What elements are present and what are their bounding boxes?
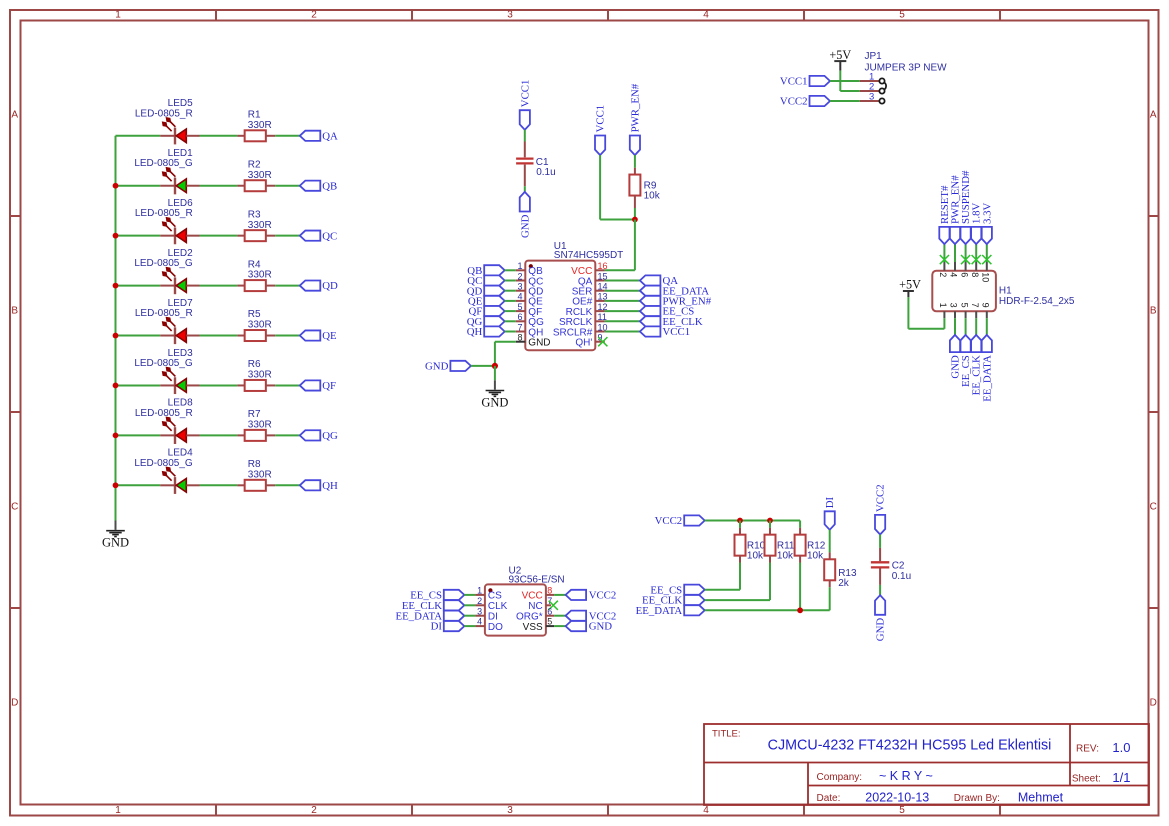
svg-text:VCC: VCC xyxy=(522,591,543,602)
svg-text:QF: QF xyxy=(322,380,336,392)
port EE_CLK (pullups) xyxy=(642,595,705,607)
svg-text:10k: 10k xyxy=(807,551,824,562)
svg-text:D: D xyxy=(1150,698,1157,709)
wire port QC to U1 pin 2 xyxy=(505,280,516,282)
svg-text:2: 2 xyxy=(311,10,317,21)
svg-text:LED-0805_G: LED-0805_G xyxy=(134,258,193,269)
svg-text:4: 4 xyxy=(517,292,522,302)
label JP1 xyxy=(865,51,948,74)
svg-text:QH: QH xyxy=(322,480,338,492)
resistor R6 330R xyxy=(237,380,275,391)
U2 pin 1 marker dot xyxy=(488,588,492,592)
port 1.8V (H1 top) xyxy=(971,203,983,245)
label LED5 xyxy=(135,98,193,119)
wire H1 pin 3 to port GND xyxy=(954,318,956,335)
label LED7 xyxy=(135,298,193,319)
LED LED8 LED-0805_R xyxy=(160,417,199,444)
ground GND (U1) xyxy=(481,380,508,409)
svg-text:DO: DO xyxy=(488,622,503,633)
svg-text:CLK: CLK xyxy=(488,601,508,612)
port EE_CS (U2 pin 1) xyxy=(410,590,464,602)
svg-text:GND: GND xyxy=(875,618,887,642)
svg-text:330R: 330R xyxy=(248,320,272,331)
wire QH row from bus to LED LED4 xyxy=(116,484,161,486)
label U2 xyxy=(509,566,565,586)
svg-text:1: 1 xyxy=(115,805,121,816)
resistor R9 10k xyxy=(629,168,640,208)
U1 pin 2 QC xyxy=(516,271,544,287)
wire U1 pin 8 to ground junction xyxy=(495,342,516,366)
wire R10 to EE_CS row xyxy=(739,563,741,590)
port EE_DATA (U1 right) xyxy=(640,285,709,297)
svg-text:330R: 330R xyxy=(248,120,272,131)
svg-text:VCC1: VCC1 xyxy=(663,326,691,338)
port QD (U1 pin 3) xyxy=(467,285,505,297)
wire port EE_DATA to U2 pin 3 xyxy=(464,615,475,617)
port EE_CLK (H1 bottom) xyxy=(971,335,983,395)
label R4 xyxy=(248,259,272,280)
svg-text:QB: QB xyxy=(322,180,337,192)
svg-text:A: A xyxy=(11,110,18,121)
U1 pin 9 QH' xyxy=(575,333,604,349)
svg-text:9: 9 xyxy=(981,303,991,308)
LED LED4 LED-0805_G xyxy=(160,467,199,494)
port EE_CLK (U1 right) xyxy=(640,316,703,328)
port SUSPEND# (H1 top) xyxy=(960,170,972,244)
port PWR_EN# xyxy=(629,83,641,155)
U1 pin 3 QD xyxy=(516,282,544,298)
svg-text:B: B xyxy=(11,306,18,317)
svg-text:GND: GND xyxy=(102,536,129,550)
LED LED3 LED-0805_G xyxy=(160,367,199,394)
wire LED LED2 to resistor R4 xyxy=(200,285,238,287)
U1 pin 5 QF xyxy=(516,302,542,318)
port GND (H1 bottom) xyxy=(950,335,962,379)
junction dot U1 ground xyxy=(492,363,498,369)
wire QD row from bus to LED LED2 xyxy=(116,285,161,287)
U2 pin 2 CLK xyxy=(475,596,507,612)
wire U2 pin 6 to port VCC2 xyxy=(554,615,566,617)
wire resistor R2 to port QB xyxy=(275,185,300,187)
svg-text:JUMPER 3P NEW: JUMPER 3P NEW xyxy=(865,63,948,74)
junction dot EE_DATA/R12 xyxy=(797,607,803,613)
wire resistor R4 to port QD xyxy=(275,285,300,287)
wire port QG to U1 pin 6 xyxy=(505,320,516,322)
svg-text:Sheet:: Sheet: xyxy=(1072,774,1101,785)
svg-text:B: B xyxy=(1150,306,1157,317)
svg-text:LED-0805_R: LED-0805_R xyxy=(135,308,193,319)
port QA (U1 right) xyxy=(640,275,678,287)
U2 pin 5 VSS xyxy=(523,617,554,633)
svg-text:330R: 330R xyxy=(248,419,272,430)
svg-text:93C56-E/SN: 93C56-E/SN xyxy=(509,575,565,586)
svg-text:EE_DATA: EE_DATA xyxy=(981,355,993,402)
port VCC1 (U1 right) xyxy=(640,326,690,338)
svg-text:VCC1: VCC1 xyxy=(519,80,531,108)
svg-text:6: 6 xyxy=(517,312,522,322)
svg-text:VCC2: VCC2 xyxy=(875,484,887,512)
svg-text:R7: R7 xyxy=(248,409,261,420)
port DI (U2 pin 4) xyxy=(431,621,465,633)
wire H1 pin 4 to port PWR_EN# xyxy=(954,244,956,262)
svg-text:7: 7 xyxy=(517,322,522,332)
U1 pin 15 QA xyxy=(578,271,608,287)
U1 pin 6 QG xyxy=(516,312,544,328)
svg-text:2k: 2k xyxy=(838,578,850,589)
svg-text:VCC1: VCC1 xyxy=(780,76,808,88)
svg-text:LED-0805_R: LED-0805_R xyxy=(135,108,193,119)
port GND (C2 bottom) xyxy=(875,595,887,641)
U1 pin 1 QB xyxy=(516,261,543,277)
port GND (U1) xyxy=(425,361,471,373)
resistor R2 330R xyxy=(237,180,275,191)
junction dot VCC1/R9 xyxy=(632,217,638,223)
svg-text:GND: GND xyxy=(589,621,613,633)
frame column numbers bottom xyxy=(115,805,905,816)
no-connect X H1 pin 8 xyxy=(972,255,981,264)
svg-text:JP1: JP1 xyxy=(865,51,883,62)
wire H1 pin 6 to port SUSPEND# xyxy=(965,244,967,262)
LED LED7 LED-0805_R xyxy=(160,317,199,344)
wire H1 pin 8 to port 1.8V xyxy=(975,244,977,262)
svg-text:LED-0805_G: LED-0805_G xyxy=(134,458,193,469)
U1 pin 13 OE# xyxy=(572,292,607,308)
LED LED1 LED-0805_G xyxy=(160,167,199,194)
H1 pin 6 xyxy=(959,262,969,277)
no-connect X U1 pin 9 xyxy=(598,337,607,346)
svg-text:H1: H1 xyxy=(999,286,1012,297)
wire H1 pin 9 to port EE_DATA xyxy=(986,318,988,335)
wire port EE_CLK to U2 pin 2 xyxy=(464,604,475,606)
U1 pin 14 SER xyxy=(572,282,608,298)
wire R9 to junction xyxy=(634,208,636,220)
svg-text:R3: R3 xyxy=(248,209,261,220)
svg-text:330R: 330R xyxy=(248,170,272,181)
resistor R8 330R xyxy=(237,480,275,491)
svg-text:~ K R Y ~: ~ K R Y ~ xyxy=(879,769,933,783)
svg-text:330R: 330R xyxy=(248,220,272,231)
label LED2 xyxy=(134,248,193,269)
svg-text:1: 1 xyxy=(477,586,482,596)
title block REV xyxy=(1076,740,1130,755)
svg-text:3: 3 xyxy=(477,606,482,616)
svg-text:3: 3 xyxy=(507,805,513,816)
port QD xyxy=(300,280,338,292)
svg-text:3: 3 xyxy=(869,92,874,103)
wire port QF to U1 pin 5 xyxy=(505,310,516,312)
wire +5V to JP1 pin 2 xyxy=(840,71,860,91)
svg-text:+5V: +5V xyxy=(899,278,921,292)
wire U1 pin 10 to port VCC1 xyxy=(605,331,640,333)
port VCC1 (U1 supply) xyxy=(595,105,607,155)
label R9 xyxy=(644,181,661,202)
label C2 xyxy=(892,561,911,582)
port RESET# (H1 top) xyxy=(939,185,951,244)
svg-text:2022-10-13: 2022-10-13 xyxy=(865,790,929,804)
svg-text:0.1u: 0.1u xyxy=(892,571,911,582)
H1 pin 1 xyxy=(938,303,948,319)
port QB (U1 pin 1) xyxy=(467,265,504,277)
svg-text:10k: 10k xyxy=(644,191,661,202)
wire U2 pin 8 to port VCC2 xyxy=(554,594,566,596)
wire EE_DATA to R13 xyxy=(705,609,830,611)
U2 pin 7 NC xyxy=(528,596,552,612)
U1 pin 4 QE xyxy=(516,292,543,308)
wire port QD to U1 pin 3 xyxy=(505,290,516,292)
wire port EE_CS to U2 pin 1 xyxy=(464,594,475,596)
port VCC2 (JP1) xyxy=(780,96,830,108)
wire port QH to U1 pin 7 xyxy=(505,331,516,333)
port VCC2 (C2 top) xyxy=(875,484,887,534)
wire R13 to EE_DATA row xyxy=(829,587,831,610)
svg-text:QH': QH' xyxy=(575,338,592,349)
U2 pin 4 DO xyxy=(475,617,503,633)
label H1 xyxy=(999,286,1075,308)
title text CJMCU-4232 xyxy=(768,738,1052,754)
label LED4 xyxy=(134,448,193,469)
H1 pin 5 xyxy=(959,303,969,319)
no-connect X H1 pin 6 xyxy=(961,255,970,264)
wire QA row from bus to LED LED5 xyxy=(116,135,161,137)
op-amp U2 body 93C56-E/SN xyxy=(485,584,546,635)
svg-text:Company:: Company: xyxy=(817,772,863,783)
svg-text:3.3V: 3.3V xyxy=(981,203,993,224)
svg-text:C: C xyxy=(11,502,18,513)
svg-text:4: 4 xyxy=(477,617,482,627)
wire junction to U1 pin 16 xyxy=(605,220,635,271)
svg-text:HDR-F-2.54_2x5: HDR-F-2.54_2x5 xyxy=(999,296,1075,307)
svg-text:QH: QH xyxy=(467,326,483,338)
wire QE row from bus to LED LED7 xyxy=(116,335,161,337)
wire resistor R5 to port QE xyxy=(275,335,300,337)
svg-text:5: 5 xyxy=(547,617,552,627)
svg-text:VCC1: VCC1 xyxy=(595,105,607,133)
resistor R3 330R xyxy=(237,230,275,241)
wire resistor R3 to port QC xyxy=(275,235,300,237)
svg-text:GND: GND xyxy=(528,338,550,349)
wire VCC2 to C2 xyxy=(879,535,881,548)
wire VCC2 rail xyxy=(705,520,800,522)
junction dot R10 top xyxy=(737,518,743,524)
port QE (U1 pin 4) xyxy=(468,296,505,308)
svg-text:VCC2: VCC2 xyxy=(780,96,808,108)
label C1 xyxy=(536,157,556,178)
svg-text:LED-0805_G: LED-0805_G xyxy=(134,158,193,169)
svg-text:2: 2 xyxy=(517,271,522,281)
svg-text:5: 5 xyxy=(517,302,522,312)
svg-text:10k: 10k xyxy=(777,551,794,562)
svg-text:1: 1 xyxy=(938,303,948,308)
svg-text:D: D xyxy=(11,698,18,709)
port EE_CLK (U2 pin 2) xyxy=(402,600,464,612)
svg-text:DI: DI xyxy=(488,612,498,623)
label R3 xyxy=(248,209,272,230)
svg-text:GND: GND xyxy=(481,395,508,409)
title block Date xyxy=(817,790,1064,804)
power +5V (H1) xyxy=(899,278,921,298)
svg-text:DI: DI xyxy=(824,497,836,509)
wire junction to ground (U1) xyxy=(494,366,496,380)
port QH xyxy=(300,480,338,492)
svg-text:GND: GND xyxy=(519,214,531,238)
port EE_CS (U1 right) xyxy=(640,306,694,318)
wire resistor R6 to port QF xyxy=(275,384,300,386)
wire QC row from bus to LED LED6 xyxy=(116,235,161,237)
port PWR_EN# (U1 right) xyxy=(640,296,712,308)
svg-text:7: 7 xyxy=(970,303,980,308)
svg-text:1/1: 1/1 xyxy=(1112,770,1130,785)
junction dot R11 top xyxy=(767,518,773,524)
U1 pin 1 marker dot xyxy=(529,264,533,268)
svg-text:8: 8 xyxy=(547,586,552,596)
svg-text:10: 10 xyxy=(981,272,991,282)
svg-text:R4: R4 xyxy=(248,259,261,270)
svg-text:8: 8 xyxy=(970,272,980,277)
svg-text:SN74HC595DT: SN74HC595DT xyxy=(554,250,623,261)
svg-text:C: C xyxy=(1150,502,1157,513)
svg-text:R8: R8 xyxy=(248,459,261,470)
svg-text:VCC2: VCC2 xyxy=(589,590,617,602)
no-connect X H1 pin 10 xyxy=(982,255,991,264)
label R11 xyxy=(777,540,795,561)
label LED8 xyxy=(135,398,193,419)
U2 pin 8 VCC xyxy=(522,586,555,602)
port DI (R13 top) xyxy=(824,497,836,530)
svg-text:+5V: +5V xyxy=(829,48,851,62)
wire port QE to U1 pin 4 xyxy=(505,300,516,302)
U2 pin 1 CS xyxy=(475,586,502,602)
svg-text:NC: NC xyxy=(528,601,542,612)
svg-text:GND: GND xyxy=(425,361,449,373)
wire resistor R7 to port QG xyxy=(275,434,300,436)
no-connect X H1 pin 2 xyxy=(940,255,949,264)
wire QB row from bus to LED LED1 xyxy=(116,185,161,187)
wire U1 pin 12 to port EE_CS xyxy=(605,310,640,312)
port EE_CS (H1 bottom) xyxy=(960,335,972,387)
svg-text:1.0: 1.0 xyxy=(1112,740,1130,755)
svg-text:1: 1 xyxy=(115,10,121,21)
svg-text:10k: 10k xyxy=(747,551,764,562)
resistor R4 330R xyxy=(237,280,275,291)
svg-text:R1: R1 xyxy=(248,110,261,121)
title block Sheet xyxy=(1072,770,1131,785)
svg-text:R2: R2 xyxy=(248,159,261,170)
wire LED LED6 to resistor R3 xyxy=(200,235,238,237)
svg-text:1: 1 xyxy=(517,261,522,271)
svg-text:TITLE:: TITLE: xyxy=(712,729,741,740)
wire U1 pin 13 to port PWR_EN# xyxy=(605,300,640,302)
resistor R11 10k xyxy=(765,521,776,563)
wire LED LED8 to resistor R7 xyxy=(200,434,238,436)
svg-text:CJMCU-4232 FT4232H HC595 Led E: CJMCU-4232 FT4232H HC595 Led Eklentisi xyxy=(768,738,1052,754)
wire U2 pin 5 to port GND xyxy=(554,625,566,627)
frame row letters left xyxy=(11,110,18,709)
svg-text:4: 4 xyxy=(703,805,709,816)
svg-text:EE_DATA: EE_DATA xyxy=(636,605,683,617)
svg-text:4: 4 xyxy=(949,272,959,277)
LED LED6 LED-0805_R xyxy=(160,217,199,244)
label R2 xyxy=(248,159,272,180)
label R7 xyxy=(248,409,272,430)
ground GND (LED bus) xyxy=(102,521,129,550)
wire PWR_EN# to R9 xyxy=(634,155,636,168)
svg-text:330R: 330R xyxy=(248,469,272,480)
svg-text:R5: R5 xyxy=(248,309,261,320)
svg-text:3: 3 xyxy=(949,303,959,308)
wire H1 pin 2 to port RESET# xyxy=(943,244,945,262)
label R1 xyxy=(248,110,272,131)
svg-text:LED-0805_R: LED-0805_R xyxy=(135,208,193,219)
svg-text:0.1u: 0.1u xyxy=(536,167,555,178)
power +5V (JP1) xyxy=(829,48,851,71)
svg-text:6: 6 xyxy=(547,606,552,616)
svg-text:CS: CS xyxy=(488,591,502,602)
svg-text:8: 8 xyxy=(517,333,522,343)
capacitor C2 0.1u xyxy=(871,548,889,585)
U1 pin 12 RCLK xyxy=(566,302,608,318)
title block frame xyxy=(704,724,1149,805)
port QA xyxy=(300,130,338,142)
wire resistor R8 to port QH xyxy=(275,484,300,486)
wire port DI to U2 pin 4 xyxy=(464,625,475,627)
H1 pin 3 xyxy=(949,303,959,319)
U1 pin 8 GND xyxy=(516,333,551,349)
svg-text:Drawn By:: Drawn By: xyxy=(954,793,1000,804)
U1 pin 11 SRCLK xyxy=(559,312,607,328)
svg-text:2: 2 xyxy=(477,596,482,606)
svg-text:VSS: VSS xyxy=(523,622,543,633)
port VCC1 (C1 top) xyxy=(519,80,531,130)
wire LED LED1 to resistor R2 xyxy=(200,185,238,187)
U1 pin 10 SRCLR# xyxy=(553,322,608,338)
capacitor C1 0.1u xyxy=(516,142,533,187)
wire C2 to GND port xyxy=(879,585,881,595)
svg-text:Date:: Date: xyxy=(817,793,841,804)
wire VCC1 to C1 xyxy=(524,130,526,142)
port QG (U1 pin 6) xyxy=(467,316,505,328)
resistor R12 10k xyxy=(795,521,806,563)
connector H1 body HDR-F-2.54_2x5 xyxy=(932,271,996,312)
LED LED2 LED-0805_G xyxy=(160,267,199,294)
connector JP1 JUMPER 3P NEW xyxy=(860,72,886,104)
wire H1 pin 5 to port EE_CS xyxy=(965,318,967,335)
wire VCC1 down to junction xyxy=(600,155,635,219)
svg-text:A: A xyxy=(1150,110,1157,121)
port GND (U2 pin 5) xyxy=(566,621,613,633)
port QH (U1 pin 7) xyxy=(467,326,505,338)
frame row letters right xyxy=(1150,110,1157,709)
bus junction dots xyxy=(113,183,119,488)
wire U1 pin 11 to port EE_CLK xyxy=(605,320,640,322)
svg-text:LED-0805_G: LED-0805_G xyxy=(134,358,193,369)
wire C1 to GND port xyxy=(524,186,526,192)
wire DI to R13 xyxy=(829,530,831,553)
port QF (U1 pin 5) xyxy=(468,306,504,318)
svg-text:QG: QG xyxy=(322,430,338,442)
port VCC2 (U2 pin 6) xyxy=(566,610,617,622)
wire U1 pin 15 to port QA xyxy=(605,280,640,282)
LED LED5 LED-0805_R xyxy=(160,117,199,144)
U2 pin 3 DI xyxy=(475,606,498,622)
svg-text:LED-0805_R: LED-0805_R xyxy=(135,408,193,419)
label R10 xyxy=(747,540,766,561)
H1 pin 2 xyxy=(938,262,948,277)
svg-text:3: 3 xyxy=(517,282,522,292)
label LED1 xyxy=(134,148,193,169)
H1 pin 8 xyxy=(970,262,980,277)
resistor R1 330R xyxy=(237,130,275,141)
wire H1 pin 10 to port 3.3V xyxy=(986,244,988,262)
